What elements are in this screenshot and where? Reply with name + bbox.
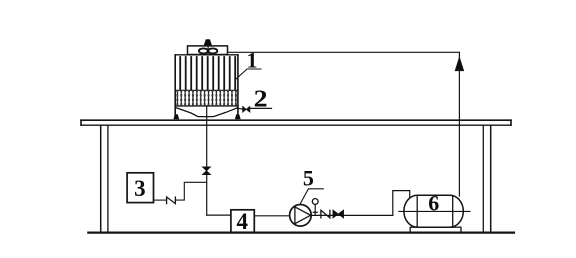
flow arrow up	[455, 57, 464, 71]
condenser 6 shell	[404, 195, 463, 227]
cooling tower 1 : body right wall	[237, 55, 239, 115]
pipe box 4 to pump	[254, 215, 289, 217]
pressure gauge circle	[312, 199, 318, 205]
pipe pump to condenser	[311, 214, 393, 216]
cooling tower 1 : right foot	[235, 115, 240, 120]
pipe from joint up to downcomer	[175, 182, 206, 200]
left wall outer line	[100, 125, 102, 232]
label 1 leader line	[235, 69, 261, 80]
cooling tower 1 : basin tub profile	[176, 108, 238, 117]
tower downcomer pipe	[206, 106, 208, 215]
condenser 6 base	[410, 227, 461, 232]
svg-text:2: 2	[254, 87, 268, 113]
left wall inner line	[107, 125, 109, 232]
discharge valve bowtie	[333, 210, 344, 218]
svg-text:5: 5	[303, 165, 314, 190]
condenser 6 centerline	[399, 210, 470, 212]
svg-text:4: 4	[236, 209, 248, 234]
flexible joint N after pump	[321, 210, 330, 218]
cooling tower 1 : basin rim line	[175, 105, 238, 107]
suction pipe to box 4	[207, 214, 231, 216]
cooling tower 1 : louver slats	[180, 57, 235, 90]
cooling tower 1 : fan motor	[204, 40, 212, 46]
cooling tower 1 : left foot	[174, 115, 179, 120]
roof slab right end cap	[510, 120, 512, 125]
cooling tower 1 : fan deck housing	[188, 46, 228, 55]
flexible joint N after box 3	[167, 197, 176, 204]
condenser inlet step pipe	[393, 191, 410, 216]
supply pipe: tower top to riser	[228, 51, 460, 53]
pipe from box 3	[154, 199, 167, 201]
floor line	[88, 232, 514, 234]
cooling tower 1 : fill packing	[176, 91, 238, 105]
condenser 6 left head seam	[416, 196, 418, 228]
svg-text:6: 6	[428, 191, 439, 216]
label 2 leader line	[250, 107, 272, 109]
roof slab bottom line	[81, 124, 511, 126]
svg-text:1: 1	[247, 48, 258, 73]
roof slab left end cap	[80, 120, 82, 125]
cooling tower 1 : fan blade right	[208, 48, 217, 53]
valve 2 bowtie	[243, 106, 250, 112]
pump 5 impeller triangle	[295, 207, 311, 224]
cooling tower 1 : body left wall	[174, 55, 176, 115]
label 5 leader line	[301, 189, 324, 204]
pressure gauge stem	[314, 204, 316, 215]
riser pipe	[458, 52, 460, 196]
roof slab top line	[81, 119, 511, 121]
box 3 (control device)	[127, 173, 153, 203]
cooling tower 1 : body top edge	[175, 54, 238, 56]
cooling tower 1 : fan blade left	[199, 48, 208, 53]
condenser 6 right head seam	[452, 196, 454, 228]
svg-text:3: 3	[134, 176, 146, 201]
pressure gauge stem tick	[313, 211, 317, 213]
valve on downcomer	[202, 167, 210, 175]
pump 5 circle	[290, 205, 312, 227]
cooling tower 1 : fan shaft	[207, 46, 209, 55]
right wall inner line	[482, 126, 484, 232]
right wall outer line	[490, 126, 492, 232]
box 4 (strainer)	[231, 210, 254, 233]
cooling tower 1 : fill zone top line	[175, 89, 238, 91]
drain pipe from basin to valve 2	[238, 108, 243, 109]
